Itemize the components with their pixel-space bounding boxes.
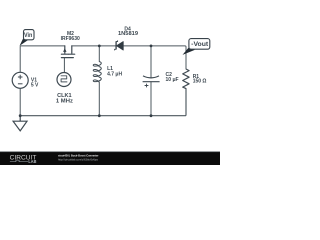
svg-text:-Vout: -Vout	[191, 41, 208, 48]
wire C2 branch	[150, 46, 152, 116]
node L1 bottom junction	[98, 114, 101, 117]
voltage source V1	[12, 72, 28, 88]
node C2 bottom junction	[150, 114, 153, 117]
ground	[13, 116, 27, 131]
svg-text:http://circuitlab.com/c/63tkv5: http://circuitlab.com/c/63tkv5v6pa	[58, 157, 98, 161]
node Vout flag	[183, 39, 210, 55]
node switch/L1 top junction	[98, 45, 101, 48]
svg-text:1N5819: 1N5819	[118, 31, 138, 37]
svg-text:Vin: Vin	[24, 32, 32, 39]
inductor L1	[93, 62, 101, 83]
svg-text:150 Ω: 150 Ω	[193, 78, 207, 84]
wire top rail mid segment	[72, 45, 116, 47]
wire left rail	[19, 46, 21, 116]
svg-text:5 V: 5 V	[31, 83, 39, 89]
svg-text:10 μF: 10 μF	[166, 77, 179, 83]
footer watermark bar	[0, 152, 220, 166]
transistor Q M2 (P-MOSFET)	[61, 46, 74, 58]
wire gate to CLK1	[63, 58, 65, 73]
svg-text:1 MHz: 1 MHz	[56, 98, 74, 104]
clock source CLK1	[57, 73, 71, 87]
node Vin flag	[20, 30, 34, 46]
wire top rail left segment	[20, 45, 65, 47]
node output/C2 top junction	[150, 45, 153, 48]
wire L1 branch	[98, 46, 100, 116]
node ground junction	[19, 114, 22, 117]
resistor R1	[183, 69, 189, 89]
svg-text:4.7 μH: 4.7 μH	[107, 72, 122, 78]
wire top rail right segment	[123, 46, 186, 69]
svg-text:IRF9630: IRF9630	[61, 36, 80, 42]
diode D4 (schottky)	[115, 40, 124, 50]
svg-text:LAB: LAB	[28, 159, 36, 164]
capacitor C2 (polarized)	[143, 76, 160, 88]
wire bottom rail	[20, 89, 186, 116]
